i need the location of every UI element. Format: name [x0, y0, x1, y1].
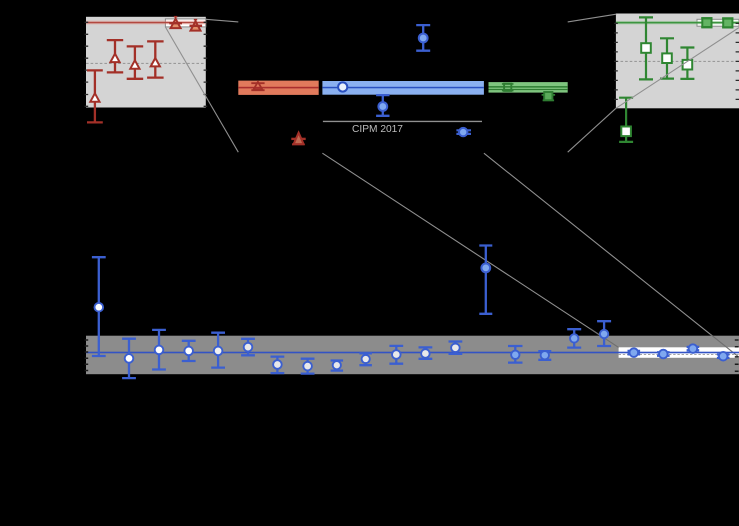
main point 18	[628, 351, 641, 354]
right inset point 1	[639, 17, 653, 79]
main band connector tails	[590, 329, 739, 358]
right inset point 3	[680, 48, 694, 79]
main point 7	[271, 357, 285, 374]
CIPM red triangle point	[291, 138, 305, 140]
main point 5	[211, 333, 225, 368]
main dashed line	[619, 354, 739, 356]
red bar	[238, 81, 318, 95]
right inset point 2	[660, 38, 674, 78]
connector blue bar to main band left	[322, 153, 618, 347]
main point 14	[508, 346, 523, 363]
left inset point 2	[107, 40, 123, 72]
connector white band to red bar top	[206, 19, 239, 22]
main point 12	[419, 347, 433, 358]
main point 8	[301, 359, 315, 374]
main point 10	[359, 353, 372, 365]
right inset low point 4	[619, 98, 633, 142]
right inset dashed line	[616, 60, 739, 62]
left inset point 4	[147, 41, 164, 77]
right inset green reference line	[616, 22, 739, 24]
left inset filled point 5	[174, 16, 177, 18]
main point 4	[182, 341, 196, 361]
left inset point 3	[127, 46, 144, 78]
connector white band to red bar bottom	[165, 27, 238, 152]
main point 2	[122, 339, 136, 378]
connector blue bar to main band right	[484, 153, 739, 357]
connector right inset diagonal	[616, 28, 739, 109]
main point 13	[449, 342, 463, 354]
left inset highlighted band	[165, 19, 205, 27]
connector green bar to right inset bottom	[568, 108, 616, 152]
main point 6	[241, 339, 255, 356]
connector green bar to right inset top	[568, 14, 617, 22]
left inset filled point 6	[194, 19, 197, 21]
main gray uncertainty band	[86, 336, 739, 375]
right inset filled point 6	[723, 18, 732, 27]
blue bar center line	[322, 87, 484, 89]
left inset background	[86, 17, 206, 108]
red bar triangle marker	[251, 83, 264, 90]
main point 21	[717, 355, 730, 358]
main point 20	[687, 347, 700, 350]
main blue reference line	[86, 352, 739, 354]
right inset background	[616, 14, 739, 109]
green bar	[489, 82, 568, 93]
left inset dashed line	[86, 62, 206, 64]
main point 15	[538, 351, 551, 360]
green bar open square marker	[502, 84, 514, 91]
right inset light green band	[616, 21, 739, 24]
svg-text:CIPM 2017: CIPM 2017	[352, 124, 403, 135]
left inset pink uncertainty band	[86, 21, 206, 25]
right inset filled point 5	[702, 18, 711, 27]
main point 1	[92, 257, 106, 356]
blue bar circle marker	[338, 82, 347, 91]
blue bar	[322, 81, 484, 95]
main point 17	[597, 321, 611, 346]
main point 11	[389, 346, 403, 364]
top blue point	[416, 25, 430, 51]
green bar filled square marker	[542, 95, 556, 101]
left inset point 1	[87, 70, 103, 122]
main point 16	[567, 329, 581, 347]
green bar center lines	[489, 86, 568, 88]
CIPM blue circle point	[456, 130, 471, 134]
main white highlighted band	[619, 347, 739, 358]
left inset axis ticks	[85, 22, 208, 106]
CIPM bracket line	[323, 120, 482, 122]
red bar center line	[238, 87, 318, 89]
left inset red reference line	[86, 22, 206, 24]
right inset axis ticks	[614, 23, 739, 99]
main point 19	[657, 352, 670, 355]
below-bar blue point	[376, 95, 389, 116]
right inset highlighted band	[697, 19, 739, 26]
main axis ticks	[85, 340, 739, 371]
main point 9	[331, 361, 344, 371]
main point 3	[152, 330, 166, 370]
outlier point	[479, 246, 492, 314]
